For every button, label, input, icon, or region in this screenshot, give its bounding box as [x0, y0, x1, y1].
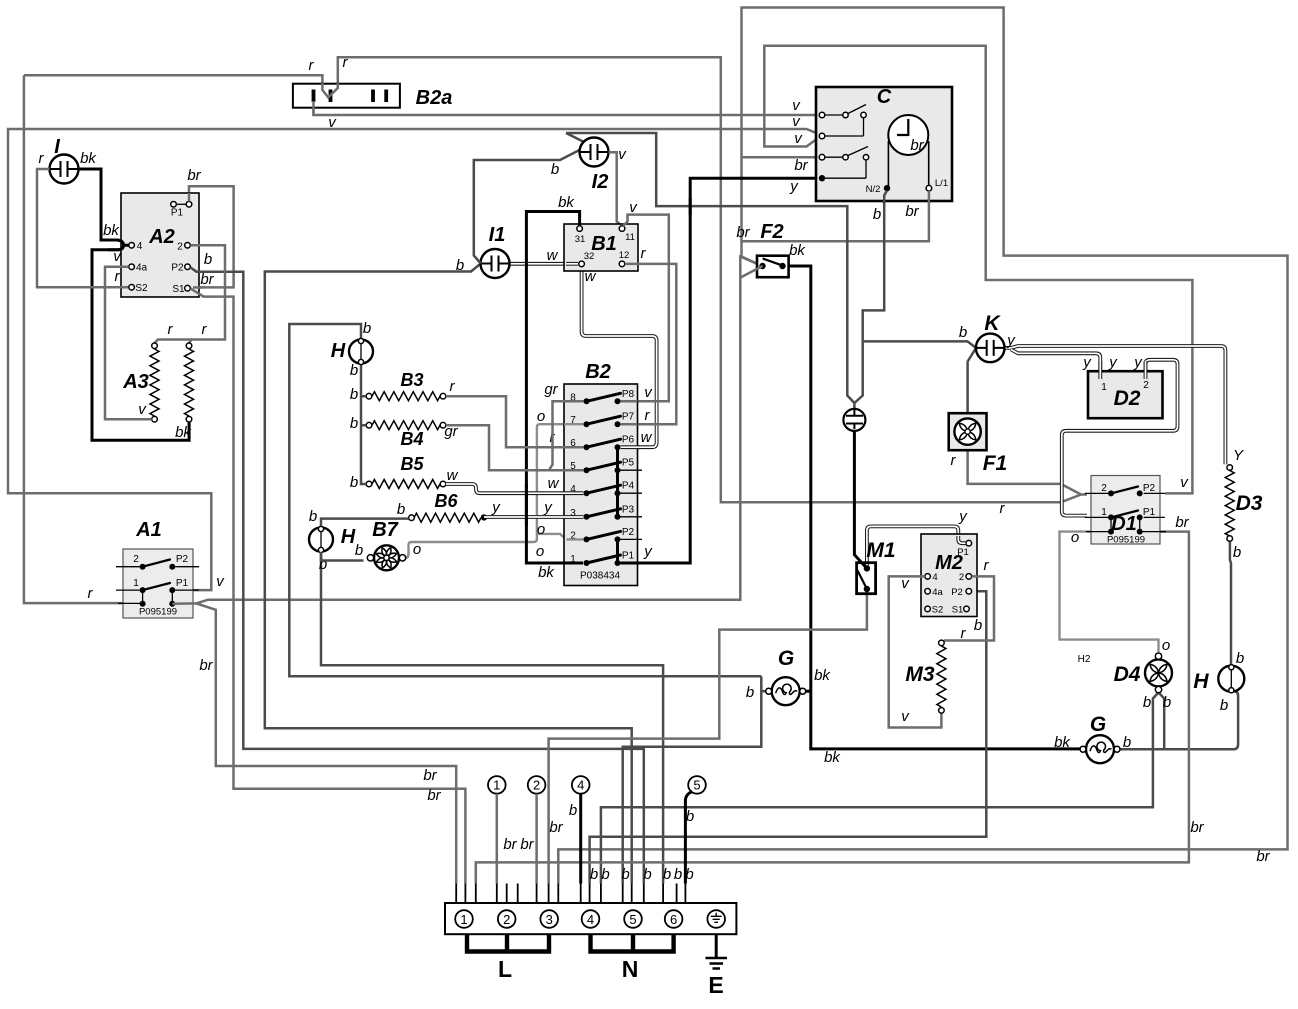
wire y D2 to D1	[1062, 360, 1178, 516]
wire y entry M2 P1	[958, 536, 965, 543]
C pin br 3	[824, 147, 868, 179]
svg-text:1: 1	[1101, 507, 1107, 518]
svg-text:B2: B2	[585, 361, 611, 383]
svg-text:S2: S2	[932, 605, 944, 616]
svg-text:H: H	[341, 526, 356, 548]
svg-text:br: br	[1190, 819, 1204, 836]
wire b node4 to strip	[579, 794, 582, 884]
svg-text:2: 2	[533, 778, 540, 793]
svg-text:P1: P1	[1143, 507, 1156, 518]
svg-text:P2: P2	[171, 263, 184, 274]
svg-text:w: w	[447, 467, 459, 484]
wire w I1 to B1 32	[510, 262, 578, 266]
wire r B1 12 to B2 P7	[621, 264, 677, 424]
svg-text:P3: P3	[622, 504, 635, 515]
svg-text:b: b	[643, 866, 651, 883]
wire r entry A2 S2	[37, 286, 128, 289]
suppressor I1	[481, 249, 510, 278]
resistor M3	[937, 646, 946, 707]
svg-text:br: br	[910, 137, 924, 154]
wire r I to A2 S2	[37, 169, 128, 287]
C pin y 4	[824, 177, 866, 179]
wire br C L1	[743, 191, 929, 242]
wire bk entry A2 pin4	[101, 240, 129, 245]
igniter D3	[1225, 471, 1234, 537]
wire b I1 to I2	[474, 150, 580, 264]
node 4	[572, 776, 590, 794]
wire b D4 to H net	[1159, 693, 1165, 750]
wire gr branch to B2 row8	[549, 401, 584, 470]
svg-text:b: b	[456, 257, 464, 274]
wire b A2 P2 to terminal	[191, 268, 644, 884]
heater B3	[372, 392, 440, 401]
svg-text:D2: D2	[1114, 387, 1141, 410]
svg-text:bk: bk	[824, 749, 841, 766]
node 2	[528, 776, 546, 794]
svg-text:b: b	[1220, 697, 1228, 714]
svg-text:br: br	[427, 787, 441, 804]
svg-text:br: br	[187, 167, 201, 184]
svg-text:P1: P1	[622, 551, 635, 562]
wire br A1 to F2	[196, 257, 762, 604]
wire r M2 to M3	[944, 576, 994, 640]
N bracket	[591, 934, 674, 951]
svg-text:b: b	[674, 866, 682, 883]
terminal 2	[498, 910, 516, 928]
wire bk F2 to G	[783, 266, 1082, 749]
L bracket	[467, 934, 549, 951]
svg-text:br: br	[520, 836, 534, 853]
ground E	[715, 934, 718, 958]
wire o entry B2 row2	[567, 538, 584, 540]
wire y entry D2 pin1	[1098, 361, 1102, 379]
svg-text:b: b	[363, 320, 371, 337]
relay A1	[123, 549, 193, 618]
wire w B5 to B2 row4	[446, 484, 584, 493]
suppressor K	[976, 334, 1005, 363]
wire b node5 to strip	[685, 792, 692, 884]
svg-text:P2: P2	[176, 554, 189, 565]
svg-text:Y: Y	[1233, 447, 1244, 464]
svg-text:w: w	[547, 247, 559, 264]
svg-text:o: o	[537, 521, 545, 538]
svg-text:4a: 4a	[932, 587, 943, 598]
svg-text:o: o	[536, 543, 544, 560]
svg-text:N/2: N/2	[866, 184, 881, 195]
wire r entry B2 P7	[621, 423, 638, 426]
svg-text:D4: D4	[1114, 663, 1141, 686]
svg-text:P1: P1	[171, 208, 184, 219]
svg-text:H: H	[331, 340, 346, 362]
svg-text:4: 4	[137, 241, 143, 252]
wire br entry S1 diag	[191, 289, 204, 297]
svg-text:br: br	[199, 657, 213, 674]
svg-text:b: b	[355, 542, 363, 559]
svg-text:I2: I2	[592, 171, 609, 193]
svg-text:L/1: L/1	[935, 178, 948, 189]
heater B5	[372, 480, 440, 489]
wire b G tap	[761, 690, 766, 693]
heater B4	[372, 421, 440, 430]
svg-text:M3: M3	[905, 663, 934, 686]
svg-text:P2: P2	[622, 527, 635, 538]
svg-text:b: b	[350, 415, 358, 432]
B2 bus P6-P3	[616, 447, 619, 517]
wire b to K	[863, 341, 976, 348]
wire b H2 to B6	[321, 519, 409, 526]
svg-text:2: 2	[177, 242, 183, 253]
wire br F2 loop to terminal 3	[558, 8, 1287, 884]
wire r A3 right top stub	[189, 340, 192, 344]
svg-text:B6: B6	[434, 491, 458, 511]
svg-text:2: 2	[1101, 483, 1107, 494]
capacitor	[843, 409, 865, 431]
svg-text:w: w	[548, 475, 560, 492]
wire v I2 to B1 11	[609, 152, 623, 226]
wire v A3 to A2 pin 4a	[105, 267, 152, 419]
C clock motor	[888, 115, 928, 155]
wire b H2 to terminal	[321, 551, 663, 884]
svg-text:B2a: B2a	[416, 87, 453, 109]
svg-text:b: b	[1143, 694, 1151, 711]
wire r F1 to D1 pin 2	[968, 450, 1087, 494]
svg-text:b: b	[873, 206, 881, 223]
svg-text:b: b	[1163, 694, 1171, 711]
svg-text:bk: bk	[789, 242, 806, 259]
wire b I1 to terminal	[265, 264, 632, 884]
wire v D1 P2 to C pin2	[764, 46, 1192, 494]
svg-text:bk: bk	[80, 150, 97, 167]
svg-text:P2: P2	[1143, 483, 1156, 494]
terminal 3	[540, 910, 558, 928]
wire bk B1 31 to B2 row1	[526, 212, 583, 564]
svg-text:I1: I1	[489, 224, 506, 246]
wire bk G tap	[806, 690, 811, 693]
svg-text:br: br	[200, 271, 214, 288]
svg-text:D3: D3	[1236, 492, 1263, 515]
lamp H second	[309, 528, 333, 552]
svg-text:o: o	[537, 408, 545, 425]
svg-text:2: 2	[133, 554, 139, 565]
svg-text:6: 6	[670, 912, 677, 927]
svg-text:o: o	[1162, 637, 1170, 654]
svg-text:P6: P6	[622, 435, 635, 446]
suppressor I	[50, 155, 79, 184]
connector B2a	[293, 84, 400, 108]
svg-text:P4: P4	[622, 481, 635, 492]
svg-text:B1: B1	[591, 233, 617, 255]
svg-text:B3: B3	[400, 370, 423, 390]
wire br node1 to strip	[496, 794, 499, 884]
heating element A3	[150, 349, 159, 416]
wire y K to D3	[1005, 346, 1226, 464]
svg-text:C: C	[877, 86, 892, 108]
svg-text:4: 4	[577, 778, 584, 793]
svg-text:A2: A2	[148, 226, 175, 248]
svg-text:br: br	[549, 819, 563, 836]
svg-text:K: K	[984, 312, 1001, 335]
wire bk A2 pin4 to A3	[92, 245, 189, 440]
wire br entry C L1	[928, 191, 931, 203]
svg-text:M2: M2	[935, 552, 963, 574]
svg-text:b: b	[350, 386, 358, 403]
thermal cutout F2	[757, 256, 789, 278]
svg-text:bk: bk	[1054, 734, 1071, 751]
wire r B2a to D1 pin 2	[24, 57, 1081, 502]
svg-text:B4: B4	[400, 429, 423, 449]
svg-text:1: 1	[1101, 382, 1107, 393]
svg-text:b: b	[309, 508, 317, 525]
svg-text:H: H	[1193, 670, 1209, 693]
wire gr B4 to B2 row5	[446, 425, 584, 470]
wire o D1 to D4	[1060, 532, 1159, 652]
svg-text:gr: gr	[544, 381, 558, 398]
svg-text:1: 1	[133, 578, 139, 589]
wire bk I to A2 pin4	[79, 169, 129, 245]
svg-text:S1: S1	[952, 605, 964, 616]
svg-text:b: b	[746, 684, 754, 701]
svg-text:b: b	[1233, 544, 1241, 561]
wire y B6 to B2 row3	[484, 515, 584, 519]
svg-text:w: w	[585, 268, 597, 285]
wire br terminal 3 to M1	[549, 592, 867, 884]
wire r A2 pin2 to A3	[155, 245, 226, 343]
terminal 6	[665, 910, 683, 928]
terminal stubs	[456, 884, 685, 904]
svg-text:D1: D1	[1111, 513, 1137, 535]
svg-text:b: b	[974, 617, 982, 634]
svg-text:P038434: P038434	[580, 571, 620, 582]
wire br entry P1	[188, 193, 191, 202]
svg-text:b: b	[686, 808, 694, 825]
svg-text:M1: M1	[866, 539, 895, 562]
wire b D3 to H	[1230, 541, 1231, 665]
wire b C N2 to capacitor	[854, 191, 887, 404]
svg-text:F1: F1	[983, 452, 1008, 475]
svg-text:4: 4	[587, 912, 594, 927]
wire b H2 to B7	[321, 552, 364, 561]
wire w entry B2 P6	[621, 445, 641, 449]
svg-text:4a: 4a	[136, 263, 148, 274]
svg-text:L: L	[498, 956, 512, 982]
svg-text:br: br	[794, 157, 808, 174]
wire br node2 to strip	[535, 794, 538, 884]
wire b M2 P2 to terminal	[590, 591, 987, 883]
terminal 4	[582, 910, 600, 928]
svg-text:o: o	[413, 541, 421, 558]
svg-text:A3: A3	[122, 371, 149, 393]
wire br to C pin 3	[742, 156, 820, 159]
wire bk entry B2 row1	[564, 562, 583, 565]
svg-text:P2: P2	[951, 587, 963, 598]
svg-text:2: 2	[1143, 380, 1149, 391]
svg-text:1: 1	[493, 778, 500, 793]
door switch M1	[857, 563, 876, 594]
buzzer G left	[772, 677, 800, 705]
svg-text:P1: P1	[176, 578, 189, 589]
svg-text:bk: bk	[814, 667, 831, 684]
svg-text:F2: F2	[760, 221, 783, 243]
svg-text:G: G	[1090, 713, 1106, 736]
wire br A2 P1 to S1	[189, 186, 234, 287]
svg-text:br: br	[503, 836, 517, 853]
wire b entry C N2	[884, 191, 887, 203]
svg-text:b: b	[685, 866, 693, 883]
svg-text:G: G	[778, 647, 794, 670]
svg-text:br: br	[736, 224, 750, 241]
terminal strip	[445, 903, 736, 934]
wire br A2 S1 to terminal 1	[191, 289, 466, 884]
lamp H right	[1218, 666, 1244, 692]
wire br entry S1	[193, 286, 205, 289]
wire y entry B2 P1	[620, 562, 637, 565]
svg-text:b: b	[350, 362, 358, 379]
svg-text:3: 3	[546, 912, 553, 927]
wire w entry B1 32	[566, 262, 578, 266]
wire o branch to B2 row2	[537, 534, 584, 540]
svg-text:S2: S2	[135, 283, 148, 294]
svg-text:bk: bk	[558, 194, 575, 211]
terminal PE	[707, 910, 725, 928]
svg-text:br: br	[1175, 514, 1189, 531]
terminal 1	[455, 910, 473, 928]
svg-text:b: b	[1236, 650, 1244, 667]
B2 bus P2-P1	[616, 539, 619, 563]
wire b G to H	[1120, 691, 1239, 749]
resistor B6	[414, 513, 481, 522]
relay D1	[1091, 476, 1160, 545]
svg-text:B7: B7	[372, 519, 398, 541]
wire o entry B2 row7	[564, 423, 584, 425]
svg-text:b: b	[959, 324, 967, 341]
wire b D4 to terminal 4	[601, 693, 1159, 884]
fan motor B7	[374, 545, 399, 570]
svg-text:1: 1	[460, 912, 467, 927]
wire v B2a pin stub	[312, 101, 315, 116]
svg-text:b: b	[569, 802, 577, 819]
timer C	[816, 87, 952, 201]
svg-text:b: b	[601, 866, 609, 883]
wire bk entry branch	[108, 245, 124, 250]
wire b G to terminal	[623, 676, 762, 883]
thermostat A2	[121, 193, 199, 297]
svg-text:br: br	[1256, 848, 1270, 865]
svg-text:A1: A1	[135, 519, 162, 541]
wire r B3 to B2 row6	[446, 396, 584, 447]
svg-text:2: 2	[503, 912, 510, 927]
svg-text:w: w	[641, 429, 653, 446]
ignition unit D2	[1088, 371, 1163, 418]
svg-text:b: b	[397, 501, 405, 518]
wire b bus H to B3 B4 B5	[361, 363, 366, 484]
wire b H to G	[289, 324, 761, 676]
svg-text:b: b	[590, 866, 598, 883]
svg-text:5: 5	[693, 778, 700, 793]
thermostat M2	[921, 534, 977, 617]
wire b capacitor lead	[853, 403, 856, 410]
wire y C to B2 P1	[620, 178, 819, 563]
svg-text:bk: bk	[175, 424, 192, 441]
svg-text:P8: P8	[622, 389, 635, 400]
wire y M1 to M2 P1	[867, 526, 966, 566]
svg-text:b: b	[663, 866, 671, 883]
svg-text:br: br	[423, 767, 437, 784]
svg-text:P5: P5	[622, 458, 635, 469]
svg-text:o: o	[1071, 529, 1079, 546]
svg-text:P095199: P095199	[139, 607, 177, 618]
wire v A1 P1 to C pin2	[8, 129, 820, 590]
svg-text:b: b	[621, 866, 629, 883]
C pin v 2	[822, 135, 864, 137]
C pin v 1	[822, 114, 843, 116]
switch unit B1	[564, 224, 638, 271]
svg-text:b: b	[350, 474, 358, 491]
svg-text:b: b	[204, 251, 212, 268]
svg-text:12: 12	[619, 250, 630, 261]
svg-text:I: I	[54, 136, 60, 158]
node 5	[688, 776, 706, 794]
wire o B7 to B2 row7	[406, 424, 584, 558]
wire y K to D2 pin 1	[1011, 350, 1100, 380]
buzzer G right	[1086, 735, 1114, 763]
svg-text:P095199: P095199	[1107, 535, 1145, 546]
svg-text:5: 5	[629, 912, 636, 927]
wire w B1 32 to B2 P6	[582, 267, 657, 447]
svg-text:b: b	[1123, 734, 1131, 751]
program switch B2	[564, 384, 638, 586]
svg-text:P7: P7	[622, 412, 635, 423]
wire b entry P2	[191, 268, 205, 272]
node 1	[488, 776, 506, 794]
svg-text:br: br	[905, 203, 919, 220]
terminal 5	[624, 910, 642, 928]
wire v entry B2 P8	[621, 400, 638, 403]
svg-text:S1: S1	[172, 284, 185, 295]
wire A1 bottom right	[172, 602, 196, 605]
wire y restroke	[689, 198, 692, 215]
svg-text:bk: bk	[538, 564, 555, 581]
fan F1	[949, 413, 987, 450]
wire b capacitor to M1	[854, 429, 867, 568]
wire bk restroke	[525, 484, 528, 526]
wire b K to F1	[968, 348, 976, 413]
wire br D1 to terminal 2	[476, 532, 1189, 884]
svg-text:E: E	[708, 972, 723, 998]
svg-text:b: b	[551, 161, 559, 178]
svg-text:N: N	[622, 956, 639, 982]
wire br A1 to terminal 1	[196, 603, 456, 883]
svg-text:31: 31	[575, 234, 586, 245]
wire r to A1 pin 1	[24, 75, 143, 603]
B2 stubs	[618, 470, 643, 539]
lamp H top	[349, 340, 373, 364]
wire v B2a to C pin1	[314, 101, 820, 115]
svg-text:bk: bk	[103, 222, 120, 239]
wire b I2 top	[566, 133, 854, 403]
wire br F2 left down	[741, 266, 763, 278]
wire y entry D2 pin2	[1144, 361, 1148, 379]
wire r into B2a	[322, 83, 337, 97]
wire v M2 to M3	[889, 576, 942, 727]
wire v B1 11 to B2 P8	[621, 215, 669, 402]
svg-text:H2: H2	[1078, 654, 1091, 665]
fan D4	[1145, 659, 1172, 686]
svg-text:11: 11	[625, 232, 635, 243]
svg-text:B5: B5	[400, 454, 424, 474]
